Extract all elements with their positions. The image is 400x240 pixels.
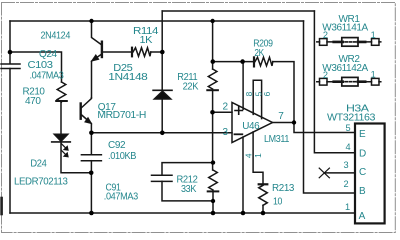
capacitor C92 <box>81 155 101 161</box>
svg-text:4: 4 <box>243 153 253 158</box>
svg-text:C103: C103 <box>28 60 54 71</box>
svg-text:1: 1 <box>253 153 263 158</box>
wire R209 feed <box>213 61 253 63</box>
wire node up to rail1 <box>161 11 163 52</box>
svg-text:R213: R213 <box>272 183 295 194</box>
svg-text:.047MA3: .047MA3 <box>30 71 65 82</box>
node R211 rail <box>210 19 214 23</box>
op-amp minus sign <box>235 133 243 135</box>
svg-text:22K: 22K <box>183 82 199 93</box>
svg-text:6: 6 <box>262 91 272 96</box>
svg-text:10: 10 <box>273 196 283 207</box>
wire inverting input (pin3) <box>91 132 232 134</box>
no-connect X on pin C <box>324 172 355 174</box>
svg-text:U46: U46 <box>242 121 260 132</box>
svg-text:2: 2 <box>344 179 349 189</box>
wire pins 5 and 6 strap <box>253 80 261 118</box>
svg-text:1: 1 <box>345 202 350 212</box>
wire bottom rail <box>10 212 354 214</box>
LED D24 <box>54 134 68 141</box>
transistor Q17 emitter <box>82 115 92 133</box>
svg-text:2: 2 <box>323 70 328 80</box>
jumper WR1 <box>317 38 381 47</box>
node R211 top <box>211 59 216 64</box>
node rail R212 <box>211 211 216 216</box>
svg-text:4: 4 <box>346 142 351 152</box>
svg-text:1: 1 <box>371 30 376 40</box>
op-amp plus sign <box>235 107 242 114</box>
svg-text:2: 2 <box>323 30 328 40</box>
wire R210 to D24 <box>60 102 62 134</box>
svg-text:2N4124: 2N4124 <box>41 31 71 42</box>
node pin8 tap <box>240 59 245 64</box>
node output <box>292 120 296 124</box>
svg-text:33K: 33K <box>181 184 197 195</box>
wire pin8 <box>242 62 244 110</box>
wire rail2 top <box>10 20 304 22</box>
wire Q17 emitter down to C92 <box>90 133 92 154</box>
jumper WR2 <box>317 77 381 86</box>
wire rail1 drop to pin D <box>314 11 355 153</box>
diode D25 <box>161 52 163 90</box>
wire R211 chain from rail2 <box>212 21 214 69</box>
svg-text:C92: C92 <box>108 140 126 151</box>
node C103 top <box>8 50 13 55</box>
svg-text:Q24: Q24 <box>39 49 58 60</box>
svg-text:2: 2 <box>223 101 229 112</box>
border zone bar <box>0 198 3 214</box>
node rail pin4 <box>241 211 246 216</box>
capacitor C103 <box>1 64 20 69</box>
op-amp U46 triangle <box>232 103 273 143</box>
svg-text:470: 470 <box>25 96 41 107</box>
resistor R209 <box>253 57 255 66</box>
wire R212 to bottom rail <box>212 191 214 213</box>
wire C92 to D24 junction and bottom rail <box>90 161 92 213</box>
node rail Q17 <box>89 211 94 216</box>
node Q17 emitter <box>89 131 94 136</box>
svg-text:3: 3 <box>223 127 229 138</box>
resistor R213 <box>259 183 268 185</box>
wire pin4 to bottom rail <box>242 137 244 213</box>
svg-text:C: C <box>359 167 366 178</box>
svg-text:W361141A: W361141A <box>322 22 368 33</box>
wire R209 to output node <box>273 62 294 123</box>
wire left drop <box>9 21 11 63</box>
transistor Q24 base wire to R114 <box>103 51 132 53</box>
node D25 bottom <box>160 131 165 136</box>
resistor R114 <box>131 48 133 57</box>
transistor Q24 collector wire <box>92 21 102 45</box>
node C91 bottom <box>211 199 215 203</box>
svg-text:A: A <box>359 211 366 222</box>
wire rail2 drop to pin B <box>304 21 355 193</box>
transistor Q24 emitter <box>92 54 102 98</box>
svg-text:MRD701-H: MRD701-H <box>97 110 146 121</box>
svg-text:D24: D24 <box>30 158 47 169</box>
svg-text:WT321163: WT321163 <box>327 112 376 123</box>
svg-text:1: 1 <box>371 70 376 80</box>
wire pin2 into op-amp <box>213 111 232 113</box>
wire pin2 node down to R212 <box>212 112 214 170</box>
wire R211 to pin2 <box>212 90 214 112</box>
resistor R211 <box>208 69 217 89</box>
rotated op-amp pin digits <box>243 91 272 158</box>
svg-text:3: 3 <box>344 160 349 170</box>
wire C103 to bottom rail <box>9 69 11 214</box>
wire R213 to bottom rail <box>262 205 264 213</box>
transistor Q17 collector <box>82 98 92 108</box>
svg-text:1N4148: 1N4148 <box>108 72 148 83</box>
svg-text:LEDR702113: LEDR702113 <box>14 176 68 187</box>
svg-text:LM311: LM311 <box>264 134 290 145</box>
svg-text:2K: 2K <box>254 48 264 59</box>
transistor Q24 bar <box>101 42 103 57</box>
node pin2 <box>210 110 215 115</box>
wire rail1 top <box>162 10 314 12</box>
wire op-amp output <box>273 122 295 124</box>
connector H3A box <box>355 124 385 224</box>
capacitor C91 loop <box>162 163 213 175</box>
wire output node to pin E <box>294 123 354 133</box>
node Q24 collector rail <box>89 19 93 23</box>
svg-text:7: 7 <box>278 111 284 122</box>
wire branch to R210 <box>10 52 62 82</box>
transistor Q17 bar <box>79 104 81 119</box>
svg-text:.047MA3: .047MA3 <box>104 191 139 202</box>
wire R114 to node <box>151 51 162 53</box>
svg-text:B: B <box>359 186 366 197</box>
wire pin1 to R213 <box>253 132 263 184</box>
node D24 C92 <box>89 171 94 176</box>
resistor R212 <box>209 170 218 190</box>
wire D24 to junction <box>61 142 91 173</box>
resistor R210 <box>57 82 66 102</box>
svg-text:E: E <box>359 129 366 140</box>
node R114 D25 <box>160 50 165 55</box>
svg-text:1K: 1K <box>140 35 153 46</box>
svg-text:.010KB: .010KB <box>108 151 137 162</box>
svg-text:5: 5 <box>346 123 351 133</box>
node R212 top <box>211 160 215 164</box>
node rail R213 <box>261 211 266 216</box>
svg-text:W361142A: W361142A <box>322 63 368 74</box>
svg-text:D: D <box>359 149 366 160</box>
